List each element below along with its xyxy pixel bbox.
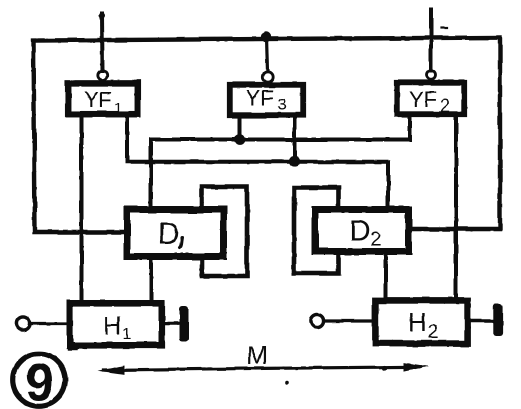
actuator bar H2 (493, 304, 503, 337)
terminal circle H2 (311, 314, 324, 327)
armature bracket D1 (202, 187, 247, 277)
wire: H2 output stub (469, 319, 494, 322)
terminal stem YF1 (antenna through top bus) (100, 14, 105, 71)
wire: H2 input (325, 319, 375, 322)
wire: outer loop (top bus, left branch to D1, right branch to D2) (34, 38, 501, 233)
svg-text:YF: YF (409, 87, 437, 112)
wire: H1 output stub (163, 322, 181, 325)
svg-text:1: 1 (123, 326, 132, 343)
block YF1 (68, 83, 138, 114)
wire: YF2 right pin down to H2 (454, 115, 458, 299)
svg-text:M: M (247, 340, 269, 370)
svg-text:9: 9 (25, 354, 54, 409)
terminal circle YF1 (98, 71, 107, 80)
terminal stem tip YF1 (99, 13, 105, 19)
block H2 (375, 300, 467, 343)
block YF2 (397, 83, 464, 114)
svg-text:2: 2 (371, 229, 382, 251)
wire: YF3 left pin (238, 116, 242, 140)
terminal circle YF3 (262, 72, 272, 82)
armature bracket D2 (294, 188, 339, 274)
block D2 (315, 210, 409, 252)
wire: YF3 right pin (293, 116, 297, 162)
terminal circle YF2 (427, 70, 436, 79)
svg-text:D: D (349, 215, 371, 248)
figure number circle (13, 354, 66, 407)
svg-text:H: H (408, 307, 427, 337)
terminal stem YF2 (antenna through top bus) (429, 9, 433, 71)
motion arrow M (double-headed) (104, 367, 420, 370)
svg-text:2: 2 (440, 96, 450, 116)
junction dot: YF3 left pin on bus B (234, 134, 245, 145)
junction dot: YF3 right pin on bus C (289, 156, 300, 167)
wire: bus C (YF1 right / YF3 right / D2 top) (127, 116, 388, 208)
ink blob on arrow line (381, 365, 386, 370)
svg-text:H: H (103, 311, 122, 341)
junction dot: YF3 stem on top bus (261, 32, 271, 42)
ink speck left of arrow (69, 348, 76, 350)
svg-text:1: 1 (114, 100, 122, 117)
terminal circle H1 (16, 317, 29, 330)
block D1 (127, 210, 224, 257)
wire: H1 input (30, 322, 68, 325)
terminal stem YF3 (267, 37, 268, 72)
wire: YF1 left pin down to H1 (80, 116, 84, 302)
ink speck near top right (441, 26, 447, 28)
svg-text:3: 3 (278, 95, 287, 114)
svg-text:YF: YF (84, 87, 112, 112)
svg-text:2: 2 (427, 321, 438, 343)
wire: D2 bottom to H2 (384, 252, 388, 299)
svg-text:YF: YF (246, 86, 274, 111)
wire: D1 bottom to H1 (149, 257, 153, 302)
block H1 (70, 303, 162, 345)
svg-text:D: D (158, 218, 180, 251)
ink speck below arrow (285, 380, 289, 384)
wire: bus B (D1 top / YF3 left / YF2 left) (151, 115, 410, 208)
block YF3 (230, 85, 303, 115)
actuator bar H1 (180, 306, 190, 341)
